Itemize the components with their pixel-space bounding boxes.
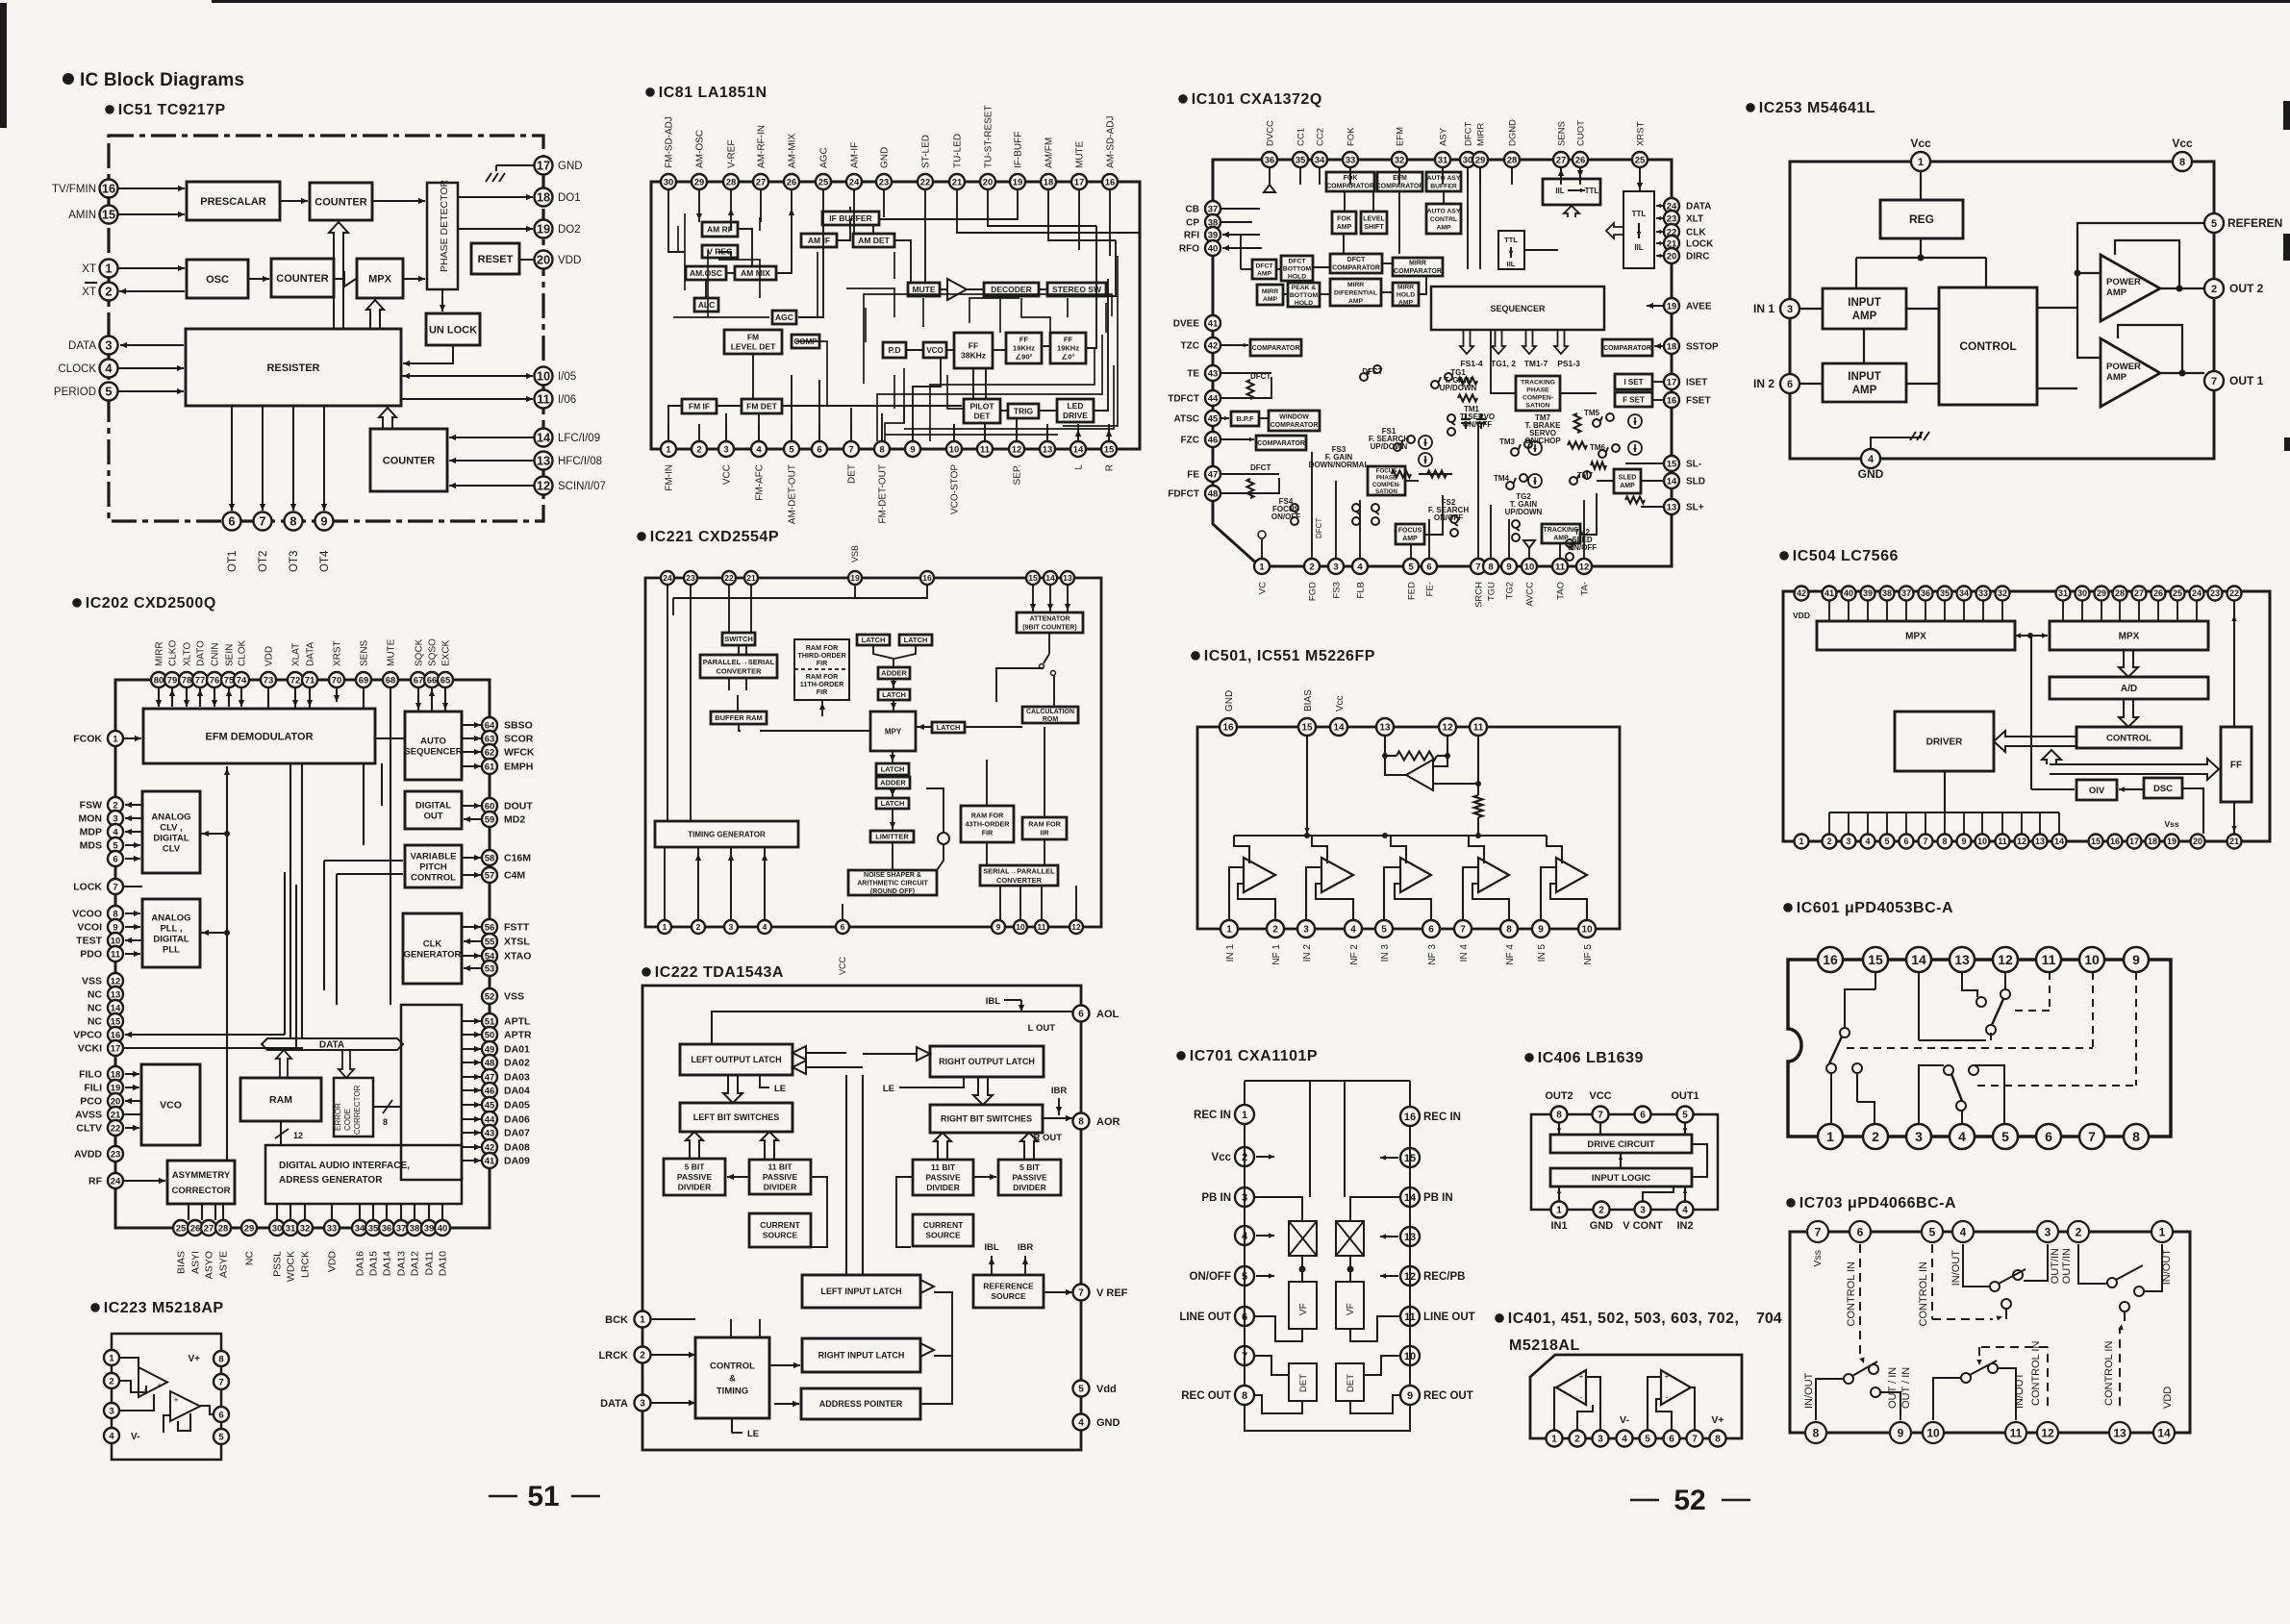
IC701 pin 2 Vcc <box>1212 1147 1274 1166</box>
svg-text:2: 2 <box>696 922 701 932</box>
IC504 pin 33 <box>1976 587 1991 601</box>
IC501 pin 5 IN 3 <box>1375 920 1393 962</box>
wire IC51 MPX to PHASE DETECTOR <box>403 276 425 282</box>
IC504 DSC block <box>2144 778 2182 798</box>
svg-text:ASYO: ASYO <box>204 1251 215 1279</box>
svg-text:704: 704 <box>1756 1311 1782 1327</box>
IC504 pin 22 <box>2227 587 2242 601</box>
IC703 switch for pins 10-11 <box>1933 1361 2016 1420</box>
wire IC51 pin13 to COUNTER <box>449 458 534 463</box>
svg-text:DA02: DA02 <box>504 1058 530 1069</box>
svg-text:C16M: C16M <box>504 853 531 864</box>
svg-text:14: 14 <box>537 431 551 445</box>
IC601 pin 8 <box>2124 1124 2149 1149</box>
svg-text:37: 37 <box>1208 204 1219 214</box>
svg-text:PSSL: PSSL <box>272 1251 284 1277</box>
svg-text:LIMITTER: LIMITTER <box>875 833 909 841</box>
svg-text:8: 8 <box>2179 157 2185 168</box>
wire IC223 pin3 to A1 + <box>119 1394 154 1411</box>
svg-text:1: 1 <box>640 1315 645 1326</box>
IC81 AGC block <box>772 311 796 324</box>
IC101 pin 1 VC <box>1254 559 1270 594</box>
svg-text:PHASE DETECTOR: PHASE DETECTOR <box>439 180 450 272</box>
svg-text:Vcc: Vcc <box>1910 137 1931 150</box>
svg-text:11: 11 <box>1998 837 2007 846</box>
svg-text:13: 13 <box>1043 444 1053 455</box>
svg-text:IN/OUT: IN/OUT <box>1803 1372 1815 1409</box>
IC223 pin 4 <box>104 1428 119 1443</box>
svg-text:MDS: MDS <box>80 840 102 852</box>
IC504 pin 17 <box>2127 835 2142 849</box>
IC501 pin 16 GND <box>1220 690 1237 736</box>
svg-text:2: 2 <box>1826 837 1831 846</box>
svg-text:38: 38 <box>410 1223 420 1234</box>
IC703 pin 2 OUT/IN <box>2068 1221 2089 1242</box>
IC51 pin 12 SCIN/I/07 <box>535 477 606 495</box>
svg-text:GND: GND <box>1858 467 1884 481</box>
IC51 pin 10 I/05 <box>535 367 577 386</box>
svg-text:3: 3 <box>109 1406 113 1416</box>
wire IC51 COUNTER to PHASE DETECTOR <box>372 198 425 204</box>
svg-text:12: 12 <box>2017 837 2026 846</box>
svg-text:AM-IF: AM-IF <box>850 142 861 168</box>
svg-text:APTL: APTL <box>504 1016 531 1028</box>
IC221 outer boundary <box>645 578 1101 927</box>
svg-text:VCOI: VCOI <box>77 922 102 934</box>
svg-text:IC221 CXD2554P: IC221 CXD2554P <box>650 529 779 545</box>
IC601 pin 3 <box>1906 1124 1931 1149</box>
wire IC51 pin5 PERIOD <box>118 388 184 394</box>
svg-text:MUTE: MUTE <box>912 285 935 294</box>
svg-text:DATO: DATO <box>196 640 207 666</box>
IC504 pin 5 <box>1880 835 1895 849</box>
svg-text:LEFT INPUT LATCH: LEFT INPUT LATCH <box>820 1287 901 1296</box>
svg-text:RAM FOR: RAM FOR <box>1028 820 1061 829</box>
svg-text:25: 25 <box>176 1223 187 1234</box>
svg-text:11: 11 <box>1473 723 1484 734</box>
svg-text:EMPH: EMPH <box>504 762 533 773</box>
svg-text:IN 5: IN 5 <box>1537 944 1548 962</box>
svg-text:CURRENT: CURRENT <box>760 1220 800 1230</box>
IC81 pin 15 R <box>1101 441 1117 471</box>
svg-text:4: 4 <box>756 444 762 455</box>
IC221 pin 16 <box>920 571 934 585</box>
op-amp IC401 A2 <box>1661 1370 1691 1405</box>
svg-text:VCC: VCC <box>722 464 733 485</box>
IC504 Vss label <box>2164 819 2178 829</box>
svg-text:52: 52 <box>485 991 495 1002</box>
wire IC221 bottom long rails <box>673 894 1076 904</box>
IC701 pin 11 LINE OUT <box>1400 1307 1475 1326</box>
IC81 pin 24 AM-IF <box>846 142 862 189</box>
IC51 COUNTER block C <box>370 429 447 491</box>
svg-text:B.P.F: B.P.F <box>1236 414 1254 423</box>
svg-text:9: 9 <box>1898 1426 1904 1439</box>
svg-text:BCK: BCK <box>605 1314 628 1326</box>
svg-text:LEFT BIT SWITCHES: LEFT BIT SWITCHES <box>693 1112 780 1122</box>
IC701 pin 14 PB IN <box>1400 1187 1453 1207</box>
IC701 left attenuator crossed box <box>1289 1221 1317 1256</box>
IC406 pin 7 VCC <box>1589 1090 1611 1123</box>
svg-text:22: 22 <box>2229 588 2239 598</box>
svg-text:1: 1 <box>1918 157 1924 168</box>
svg-text:ALC: ALC <box>698 300 715 310</box>
IC222 ADDRESS POINTER block <box>801 1388 920 1419</box>
IC703 uPD4066BC-A title <box>1786 1195 1956 1212</box>
IC202 pin 30 PSSL <box>269 1220 285 1277</box>
svg-text:AVCC: AVCC <box>1525 582 1536 607</box>
svg-text:FM-IN: FM-IN <box>665 464 675 491</box>
svg-text:18: 18 <box>1044 177 1054 187</box>
IC221 pin 2 <box>692 920 705 934</box>
IC253 pin 3 IN 1 <box>1753 299 1799 318</box>
IC202 pin 39 DA11 <box>421 1220 437 1276</box>
svg-text:25: 25 <box>2173 588 2182 598</box>
svg-text:19: 19 <box>1667 301 1677 312</box>
svg-text:VCKI: VCKI <box>78 1043 102 1055</box>
IC253 pin 8 Vcc <box>2172 137 2193 171</box>
svg-text:FIR: FIR <box>982 829 994 837</box>
svg-text:CLV ,: CLV , <box>160 822 183 833</box>
svg-text:EFM DEMODULATOR: EFM DEMODULATOR <box>205 731 313 742</box>
IC701 VF block R <box>1336 1282 1364 1329</box>
svg-text:21: 21 <box>952 177 963 187</box>
IC401 pin 4 <box>1617 1431 1633 1447</box>
IC701 pin 8 REC OUT <box>1181 1386 1254 1405</box>
IC401 pin 6 <box>1664 1431 1680 1447</box>
svg-text:30: 30 <box>1463 155 1473 165</box>
IC202 DIGITAL OUT block <box>405 791 462 829</box>
svg-text:CONVERTER: CONVERTER <box>996 876 1043 885</box>
IC101 FOCUS AMP block <box>1396 524 1424 544</box>
svg-text:23: 23 <box>1667 213 1677 224</box>
IC101 pin 44 TDFCT <box>1168 390 1220 406</box>
wire IC51 RESET to pin20 <box>519 259 534 261</box>
wire IC221 attenuator wiring <box>996 585 1070 707</box>
wire IC253 control to power amps <box>2037 288 2101 388</box>
IC504 pin 40 <box>1842 587 1856 601</box>
svg-text:LATCH: LATCH <box>937 723 961 732</box>
svg-text:TTL: TTL <box>1632 210 1647 218</box>
svg-text:7: 7 <box>1598 1111 1603 1121</box>
svg-text:V+: V+ <box>188 1354 200 1364</box>
svg-text:43: 43 <box>485 1128 495 1138</box>
svg-text:IIL: IIL <box>1634 243 1643 252</box>
svg-text:7: 7 <box>1692 1435 1698 1445</box>
svg-text:MPX: MPX <box>1905 632 1926 642</box>
svg-text:BIAS: BIAS <box>1303 689 1314 712</box>
svg-text:SLED: SLED <box>1619 475 1637 482</box>
IC601 pin 1 <box>1818 1124 1843 1149</box>
svg-text:29: 29 <box>1475 155 1486 165</box>
wire IC223 pin2 feedback <box>119 1381 146 1392</box>
svg-text:PB IN: PB IN <box>1423 1192 1453 1204</box>
svg-text:1: 1 <box>1826 1129 1834 1144</box>
wire IC703 pin1 inner rail <box>2161 1244 2163 1279</box>
svg-text:39: 39 <box>1208 230 1219 240</box>
IC202 pin 50 APTR <box>482 1027 532 1042</box>
svg-text:DA12: DA12 <box>410 1251 421 1276</box>
IC202 pin 32 LRCK <box>297 1220 313 1278</box>
svg-text:HOLD: HOLD <box>1295 300 1313 307</box>
IC51 pin 13 HFC/I/08 <box>535 452 603 470</box>
IC81 pin 21 TU-LED <box>949 134 965 189</box>
IC703 pin 3 OUT/IN <box>2037 1221 2058 1242</box>
svg-text:FOCUS: FOCUS <box>1398 528 1422 535</box>
IC504 pin 28 <box>2113 587 2127 601</box>
IC222 11 BIT PASSIVE DIVIDER L <box>749 1160 811 1194</box>
IC221 pin 3 <box>724 920 738 934</box>
IC701 pin 15 <box>1380 1148 1420 1167</box>
IC202 pin 59 MD2 <box>482 812 525 827</box>
svg-text:10: 10 <box>1581 925 1593 936</box>
svg-text:MIRR: MIRR <box>1262 288 1278 295</box>
svg-text:12: 12 <box>1998 952 2013 967</box>
IC501 pin 12 <box>1439 718 1456 736</box>
svg-text:DET: DET <box>847 464 858 484</box>
IC401 V+ label <box>1711 1414 1724 1426</box>
svg-text:FSET: FSET <box>1686 396 1711 407</box>
IC202 pin 45 DA05 <box>482 1097 530 1112</box>
svg-text:2: 2 <box>640 1351 645 1362</box>
svg-text:PDO: PDO <box>80 949 102 961</box>
svg-text:DA06: DA06 <box>504 1114 530 1126</box>
svg-text:VPCO: VPCO <box>73 1030 102 1041</box>
svg-text:56: 56 <box>485 922 495 933</box>
svg-text:1: 1 <box>109 1353 114 1363</box>
svg-text:BUFFER RAM: BUFFER RAM <box>715 713 763 722</box>
IC221 LIMITTER block <box>870 831 914 842</box>
svg-text:TM1-7: TM1-7 <box>1524 359 1548 368</box>
IC222 IBL IBR ref labels <box>984 1242 1033 1275</box>
IC501 IC551 M5226FP title <box>1191 648 1375 664</box>
IC202 pin 47 DA03 <box>482 1069 530 1085</box>
svg-text:PEAK &: PEAK & <box>1292 285 1317 291</box>
svg-text:PILOT: PILOT <box>969 401 994 411</box>
svg-text:1: 1 <box>105 262 112 276</box>
svg-text:FED: FED <box>1407 582 1418 600</box>
svg-text:ADRESS GENERATOR: ADRESS GENERATOR <box>279 1175 383 1186</box>
svg-text:5: 5 <box>218 1432 224 1442</box>
svg-text:6: 6 <box>2045 1129 2052 1144</box>
IC101 pin 39 RFI <box>1184 227 1220 242</box>
svg-text:3: 3 <box>1598 1435 1603 1445</box>
wire IC222 bit switches to AOR <box>1043 1115 1072 1121</box>
svg-text:PASSIVE: PASSIVE <box>763 1172 798 1182</box>
svg-text:35: 35 <box>368 1223 379 1234</box>
IC101 pin 16 FSET <box>1664 392 1711 408</box>
IC601 pin 14 <box>1906 947 1931 972</box>
svg-text:CLKO: CLKO <box>168 640 179 666</box>
svg-text:IC202 CXD2500Q: IC202 CXD2500Q <box>86 595 216 612</box>
svg-text:8: 8 <box>289 514 296 529</box>
IC222 RIGHT INPUT LATCH block <box>802 1338 920 1372</box>
svg-text:XLTO: XLTO <box>183 642 193 666</box>
IC504 OIV block <box>2076 780 2117 800</box>
IC222 TDA1543A title <box>642 964 784 981</box>
svg-text:IN 4: IN 4 <box>1459 944 1470 962</box>
IC101 current source circles <box>1419 414 1642 487</box>
svg-text:XLT: XLT <box>1686 214 1703 225</box>
svg-text:BUFFER: BUFFER <box>1430 184 1457 190</box>
svg-text:FILO: FILO <box>79 1069 102 1081</box>
IC81 LED DRIVE block <box>1057 399 1094 422</box>
IC101 outer boundary <box>1213 160 1672 566</box>
wire IC222 input latch to output latch arrows <box>793 1046 930 1074</box>
svg-text:8: 8 <box>1242 1390 1247 1402</box>
IC222 pin 8 AOR <box>1073 1113 1120 1130</box>
svg-text:TIMING GENERATOR: TIMING GENERATOR <box>688 830 766 838</box>
svg-text:DIVIDER: DIVIDER <box>764 1182 796 1191</box>
IC101 pin 30 DFCT <box>1460 121 1475 167</box>
svg-text:DIVIDER: DIVIDER <box>926 1183 959 1192</box>
svg-text:20: 20 <box>111 1096 121 1107</box>
IC504 LC7566 title <box>1779 548 1899 564</box>
svg-text:16: 16 <box>1667 395 1677 406</box>
svg-text:FSW: FSW <box>80 800 102 812</box>
svg-text:DVCC: DVCC <box>1266 120 1276 146</box>
IC221 SWITCH block <box>722 633 755 645</box>
svg-text:PARALLEL→SERIAL: PARALLEL→SERIAL <box>703 658 775 666</box>
IC504 pin 14 <box>2052 835 2067 849</box>
op-amp IC501 A5 <box>1556 858 1587 892</box>
IC221 CALCULATION ROM block <box>1022 707 1078 723</box>
IC501 pin 9 IN 5 <box>1532 920 1549 962</box>
IC504 pin 26 <box>2152 587 2166 601</box>
svg-text:7: 7 <box>2211 376 2217 387</box>
IC253 pin 5 REFERENCE <box>2204 213 2282 233</box>
svg-text:17: 17 <box>111 1043 121 1054</box>
svg-text:11 BIT: 11 BIT <box>768 1162 793 1171</box>
svg-text:15: 15 <box>2091 837 2101 846</box>
svg-text:13: 13 <box>1379 723 1391 734</box>
svg-text:43: 43 <box>1208 368 1219 379</box>
svg-text:3: 3 <box>105 338 112 353</box>
svg-text:DA05: DA05 <box>504 1100 530 1112</box>
svg-text:FM DET: FM DET <box>746 401 777 411</box>
IC202 pin 1 FCOK <box>73 731 123 746</box>
svg-text:28: 28 <box>2115 588 2125 598</box>
svg-text:IC501, IC551 M5226FP: IC501, IC551 M5226FP <box>1204 648 1375 664</box>
svg-text:ASYE: ASYE <box>218 1251 230 1278</box>
svg-text:44: 44 <box>485 1114 495 1125</box>
op-amp IC501 A2 <box>1321 858 1353 892</box>
IC221 RAM FOR 43TH block <box>961 806 1014 842</box>
wire IC202 pins 67,66,65 to AUTO SEQUENCER <box>415 687 448 712</box>
svg-text:DFCT: DFCT <box>1315 518 1323 538</box>
wire IC202 RAM 12 slash <box>275 1121 303 1145</box>
svg-text:MD2: MD2 <box>504 814 525 826</box>
wire IC701 inner columns <box>1302 1081 1345 1221</box>
svg-text:LEVEL DET: LEVEL DET <box>731 341 776 351</box>
svg-text:FZC: FZC <box>1181 436 1199 446</box>
IC221 LATCH A <box>857 635 890 645</box>
svg-text:TU-ST-RESET: TU-ST-RESET <box>984 105 994 168</box>
IC504 pin 35 <box>1938 587 1952 601</box>
wire IC601 pin14 rail <box>1919 972 1991 1040</box>
svg-text:TV/FMIN: TV/FMIN <box>52 184 96 195</box>
IC202 pin 74 CLOK <box>234 639 249 687</box>
wire IC101 mid mesh <box>1405 330 1664 535</box>
svg-text:25: 25 <box>1635 155 1646 165</box>
IC504 pin 37 <box>1900 587 1914 601</box>
svg-text:9: 9 <box>996 922 1001 932</box>
IC202 pin 24 RF <box>88 1173 123 1188</box>
IC81 FM IF block <box>682 399 717 413</box>
svg-text:ON/OFF: ON/OFF <box>1568 543 1597 552</box>
svg-text:AUTO: AUTO <box>420 736 446 746</box>
svg-text:AM.OSC: AM.OSC <box>690 268 722 278</box>
wire IC504 CONTROL to DRIVER hollow <box>1994 731 2076 752</box>
IC202 pin 7 LOCK <box>73 879 123 894</box>
svg-text:DOWN/NORMAL: DOWN/NORMAL <box>1309 461 1370 469</box>
IC202 pin 60 DOUT <box>482 798 533 813</box>
svg-text:I/05: I/05 <box>558 371 576 383</box>
svg-text:15: 15 <box>1104 444 1115 455</box>
svg-text:COMPARATOR: COMPARATOR <box>1603 345 1651 352</box>
svg-text:5: 5 <box>2001 1129 2009 1144</box>
IC504 pin 34 <box>1957 587 1972 601</box>
IC101 pin 40 RFO <box>1179 240 1220 256</box>
svg-text:LEVEL: LEVEL <box>1363 216 1385 223</box>
svg-text:P.D: P.D <box>888 345 900 355</box>
svg-text:TGU: TGU <box>1487 582 1497 601</box>
svg-text:13: 13 <box>1063 573 1072 583</box>
IC51 PRESCALAR block <box>187 182 280 220</box>
IC222 LE label right <box>883 1077 964 1094</box>
wire IC51 PRESCALAR to COUNTER <box>280 198 308 204</box>
IC221 VCC label <box>838 957 847 976</box>
svg-text:IIR: IIR <box>1040 829 1049 837</box>
svg-text:SATION: SATION <box>1525 402 1549 409</box>
IC101 pin 48 FDFCT <box>1168 486 1220 501</box>
svg-text:DRIVE CIRCUIT: DRIVE CIRCUIT <box>1587 1139 1654 1150</box>
IC202 pin 78 XLTO <box>179 642 194 687</box>
svg-text:45: 45 <box>1208 413 1219 424</box>
svg-text:LEFT OUTPUT LATCH: LEFT OUTPUT LATCH <box>691 1055 781 1064</box>
svg-text:13: 13 <box>111 989 121 1000</box>
svg-text:VC: VC <box>1258 582 1269 594</box>
IC51 TC9217P title <box>105 102 225 118</box>
IC504 pin 42 <box>1795 587 1809 601</box>
wire IC222 divider chain L <box>727 1174 827 1247</box>
svg-text:INPUT: INPUT <box>1848 371 1881 383</box>
svg-text:SHIFT: SHIFT <box>1364 224 1384 231</box>
svg-text:26: 26 <box>787 177 797 187</box>
svg-text:8: 8 <box>1942 837 1947 846</box>
IC253 pin 7 OUT 1 <box>2204 371 2264 390</box>
svg-text:PITCH: PITCH <box>419 862 447 872</box>
op-amp IC223 A1 <box>138 1367 167 1397</box>
IC222 pin 3 DATA <box>600 1395 650 1412</box>
wire IC81 top pin stubs <box>668 189 1110 207</box>
svg-text:VDD: VDD <box>1793 611 1810 620</box>
IC202 pin 67 SQCK <box>411 638 426 687</box>
IC202 ANALOG CLV DIGITAL CLV block <box>142 791 200 873</box>
svg-text:COMPARATOR: COMPARATOR <box>1332 265 1380 272</box>
IC406 pin 1 IN1 <box>1550 1202 1567 1233</box>
IC253 REG block <box>1880 200 1963 238</box>
wire IC701 pin14 to right attenuator <box>1350 1197 1400 1221</box>
svg-text:SWITCH: SWITCH <box>724 635 753 643</box>
IC501 pin 4 NF 2 <box>1345 920 1362 965</box>
IC221 SERIAL-PARALLEL CONVERTER block <box>980 865 1058 886</box>
svg-text:4: 4 <box>1960 1225 1967 1238</box>
svg-text:52: 52 <box>1673 1485 1705 1516</box>
svg-text:VSS: VSS <box>504 991 524 1003</box>
IC51 COUNTER block A <box>310 183 372 220</box>
IC221 MPY block <box>870 712 916 751</box>
